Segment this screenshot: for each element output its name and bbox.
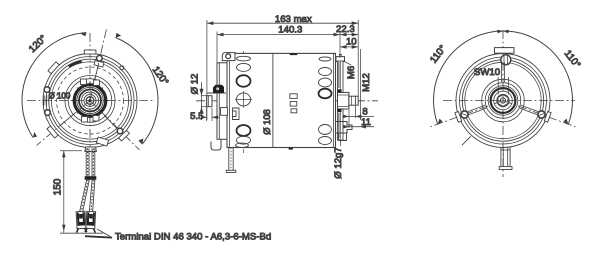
svg-text:150: 150 [53, 178, 64, 195]
ext line bottom of stub [201, 106, 207, 108]
svg-text:110°: 110° [428, 43, 449, 65]
ext 5.5 right [211, 108, 213, 121]
arrow arcR end [563, 119, 568, 125]
top screw [501, 55, 511, 65]
dim line 10 [340, 46, 358, 48]
svg-text:Ø 12g7: Ø 12g7 [333, 147, 344, 178]
svg-text:Terminal DIN 46 340 - A6,3-6-M: Terminal DIN 46 340 - A6,3-6-MS-Bd [115, 232, 271, 243]
arrow arc2 top [116, 33, 122, 38]
ext 5.5 left [206, 108, 208, 121]
nameplate rects [290, 94, 297, 99]
clamp band inner [51, 62, 128, 139]
top-left lug [222, 53, 235, 61]
band tab upper-right [94, 60, 104, 67]
shaft foot [499, 167, 512, 170]
cable tie [85, 176, 97, 180]
lug lower-right [544, 111, 551, 122]
screw upper-right [97, 56, 103, 62]
dim 150 line [63, 151, 65, 233]
spoke lower-right [104, 115, 117, 128]
body inner left line [229, 53, 231, 147]
seam dark dash top [290, 53, 298, 55]
radial lower-right [503, 101, 575, 127]
dim 8 [344, 115, 374, 117]
base bar leader [85, 236, 112, 237]
wire right [91, 149, 93, 178]
seam dark dash bottom [289, 148, 293, 150]
cable gland neck [85, 147, 97, 152]
tab top [84, 50, 96, 54]
vent column centerline left [243, 51, 245, 153]
spokes double [500, 63, 502, 83]
svg-text:22.3: 22.3 [336, 24, 355, 35]
brush holder box 2 [221, 108, 228, 116]
svg-text:Ø 100: Ø 100 [49, 92, 71, 101]
dimension arc left 120 [22, 33, 86, 138]
housing outer [456, 54, 550, 148]
brush box upper-right [94, 80, 100, 86]
shaft flat line [354, 96, 356, 105]
arrow 150 bottom [62, 225, 65, 232]
boss dark corners [338, 89, 342, 92]
dimension arc right 120 [116, 38, 158, 145]
svg-text:11: 11 [361, 117, 371, 128]
arrow arc2 bottom [138, 138, 143, 144]
tab upper-left [48, 62, 59, 74]
arrow top-right [503, 30, 509, 34]
svg-text:10: 10 [346, 36, 357, 47]
bolt circle dashed [57, 67, 124, 134]
bottom-right lug bracket [336, 122, 352, 134]
brush cover inner line [218, 63, 220, 140]
arrow arc1 top [81, 33, 87, 37]
ext line 349 [348, 110, 350, 128]
leader lower-left [462, 136, 471, 145]
bearing ring dark [74, 85, 106, 117]
hub circle r25 [65, 76, 115, 126]
terminal plate [207, 92, 226, 94]
flange piece below [339, 133, 347, 141]
clamp band outer [49, 59, 132, 142]
tab lower-right [119, 130, 130, 141]
hub circle r8.5 [82, 92, 99, 109]
cable boss bottom [96, 137, 108, 146]
housing outer circle [43, 54, 137, 148]
screw left-lower [45, 110, 51, 116]
arrow 150 top [62, 151, 65, 158]
screw left-upper [44, 87, 50, 93]
dim line 140.3 / 22.3 [217, 34, 358, 36]
hub circle r13.2 [77, 87, 103, 113]
dim line 163 [207, 22, 358, 24]
svg-text:140.3: 140.3 [278, 24, 302, 35]
tab lower-left [47, 126, 58, 138]
vents left column [237, 56, 251, 61]
band [462, 60, 543, 141]
centerline horizontal [196, 100, 378, 102]
terminal left [75, 211, 86, 232]
shaft stub left [207, 96, 212, 107]
hub circles [482, 79, 525, 122]
top-right lug [336, 57, 345, 62]
SW10 ext lines [497, 77, 499, 95]
hub circle r11 [79, 90, 101, 112]
hub circle r21.8 [68, 79, 112, 123]
rim pin upper-right [120, 66, 124, 70]
bearing ticks [72, 82, 108, 118]
dim arc left 110 [433, 31, 503, 124]
radial centerline lower-left [36, 101, 90, 146]
output shaft [349, 96, 358, 105]
shaft center [86, 97, 94, 105]
bottom-left bracket [211, 139, 221, 150]
endcap section hatch lower [338, 113, 340, 138]
svg-text:M12: M12 [361, 73, 372, 92]
main body [227, 53, 336, 147]
body seam [272, 53, 274, 147]
dim line diameter 12 [201, 82, 203, 120]
clamp seam left [43, 95, 45, 106]
ext line M12/8 [359, 49, 361, 120]
top-left lug screw [226, 54, 231, 59]
ext line 140.3 left [216, 32, 218, 131]
svg-text:M6: M6 [346, 66, 357, 79]
svg-text:Ø 12: Ø 12 [190, 74, 201, 95]
screw lower-right [117, 128, 123, 134]
svg-text:8: 8 [362, 106, 367, 117]
radial centerline lower-right [90, 101, 140, 151]
hub circle r6 [84, 95, 96, 107]
svg-text:Ø 108: Ø 108 [261, 109, 272, 135]
spoke upper-right [95, 63, 99, 81]
dim 11 [345, 126, 375, 128]
leader M6 [343, 61, 351, 65]
ext line 355 [354, 106, 356, 118]
wire to right terminal [89, 180, 95, 212]
brush cover left [217, 63, 227, 140]
ext line right 358 [357, 20, 359, 96]
right endcap [338, 61, 344, 140]
leader terminal note [97, 229, 111, 237]
ext line top of stub [201, 95, 207, 97]
centerline vertical [89, 33, 91, 150]
wire left [85, 149, 87, 178]
boss M12 [338, 92, 349, 109]
svg-text:110°: 110° [562, 48, 583, 70]
top lug [495, 48, 515, 54]
svg-text:163 max: 163 max [275, 14, 312, 25]
svg-text:120°: 120° [27, 33, 49, 55]
brush box upper-left [81, 79, 87, 85]
svg-text:5.5: 5.5 [190, 111, 203, 122]
stud foot [226, 170, 236, 172]
svg-text:SW10: SW10 [474, 67, 500, 78]
centerline vertical [502, 30, 504, 177]
arrow arc1 bottom [33, 132, 37, 138]
brush box lower-right [93, 116, 99, 122]
base line under terminals [60, 232, 103, 234]
wire to left terminal [80, 180, 90, 212]
brush box lower-left [82, 117, 88, 123]
band bold segment upper-left [69, 61, 82, 66]
housing second circle [46, 57, 134, 145]
terminal block black [213, 85, 224, 93]
hex SW10 [498, 95, 508, 107]
centerline horizontal [27, 100, 153, 102]
shaft down [500, 147, 502, 167]
radial lower-left [431, 101, 503, 127]
vent column centerline right [324, 53, 326, 151]
ext line 340 [339, 32, 341, 59]
dim 5.5 arrows [201, 116, 207, 118]
radial centerline upper-right [90, 29, 106, 100]
terminal right [85, 211, 96, 232]
arrow arcL end [438, 119, 443, 125]
ext line 163 left [206, 20, 208, 120]
spoke lower-left [61, 113, 75, 125]
hanging stud [228, 148, 230, 171]
endcap section hatch upper [338, 62, 340, 88]
centerline horizontal [443, 100, 575, 102]
vents right column [319, 57, 331, 61]
leader diameter 12g7 [340, 141, 342, 147]
lug lower-left [455, 111, 462, 122]
dim arc right 110 [503, 31, 573, 124]
svg-text:120°: 120° [150, 65, 171, 88]
arrow top-left [497, 30, 503, 34]
body inner right line [333, 53, 335, 147]
dim 150 extension top [60, 150, 82, 152]
brush holder box [233, 108, 240, 120]
